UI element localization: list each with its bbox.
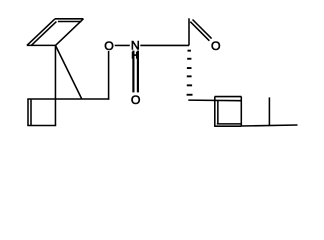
svg-text:O: O <box>104 39 114 53</box>
svg-text:O: O <box>131 93 141 107</box>
svg-text:O: O <box>211 39 221 53</box>
svg-text:H: H <box>131 51 138 62</box>
